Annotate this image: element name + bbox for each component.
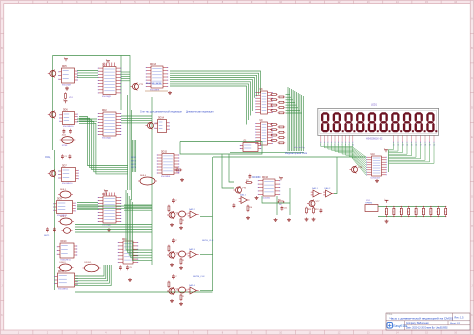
resistor R4v <box>247 205 253 213</box>
IC DD1 top pins <box>104 63 114 67</box>
wire bus <box>131 199 152 258</box>
svg-text:C: C <box>1 77 3 80</box>
wire <box>77 74 98 76</box>
ground G5 <box>180 178 184 182</box>
svg-text:H: H <box>1 225 3 228</box>
wire display digit <box>389 143 430 162</box>
wire <box>77 205 152 207</box>
wire <box>200 216 213 218</box>
capacitor C5 <box>119 265 122 270</box>
svg-text:К561ИЕ11: К561ИЕ11 <box>58 289 69 291</box>
svg-text:DA1.1: DA1.1 <box>312 187 319 190</box>
wire bus <box>128 193 152 253</box>
wire <box>121 117 152 119</box>
wire <box>289 188 291 215</box>
wire <box>121 73 130 75</box>
wire <box>121 115 152 117</box>
capacitor C2 <box>69 154 72 159</box>
resistor RL5 <box>415 206 418 217</box>
transistor Q1 <box>48 70 56 78</box>
IC U12 CD4060 <box>258 177 280 199</box>
net pins U11 <box>131 157 136 169</box>
IC DD4 <box>118 239 139 264</box>
ground G7 <box>274 218 278 222</box>
wire set bus <box>75 229 152 231</box>
wire hours bus <box>170 82 251 116</box>
wire bus <box>75 265 106 278</box>
wire <box>124 204 152 206</box>
svg-text:К561ИД1: К561ИД1 <box>102 225 112 227</box>
wire <box>286 94 290 96</box>
resistor RL7 <box>429 206 432 217</box>
resistor network R20-R35 <box>255 89 285 145</box>
wire display segment <box>342 143 366 170</box>
vcc V2 <box>63 99 67 103</box>
capacitor C6 <box>126 265 133 270</box>
svg-text:Индикаторный блок: Индикаторный блок <box>285 152 308 155</box>
svg-text:К561ИЕ10: К561ИЕ10 <box>62 183 73 185</box>
wire display digit <box>389 143 421 159</box>
resistor RL9 <box>444 206 447 217</box>
wire display digit <box>389 143 403 153</box>
wire display digit <box>389 143 408 155</box>
wire long vertical <box>151 97 153 265</box>
comparator cluster B <box>167 238 199 269</box>
wire segment bus <box>294 91 296 151</box>
display DS1 HS420561K-32 <box>318 104 439 141</box>
wire long bottom <box>75 291 213 293</box>
svg-text:К561ИЕ8: К561ИЕ8 <box>150 90 160 92</box>
wire bus <box>77 120 97 122</box>
wire hours bus <box>170 73 259 94</box>
wire bus U2-U3 <box>79 122 128 172</box>
net label B <box>202 240 214 242</box>
gate D7 <box>138 175 157 185</box>
capacitor C7 <box>249 174 252 179</box>
gate D5 <box>83 262 101 272</box>
ground G3 <box>107 228 111 232</box>
transistor Q3 <box>131 83 144 91</box>
IC U11 decoder <box>157 152 180 178</box>
svg-text:DD12: DD12 <box>58 271 65 273</box>
resistor RL2 <box>392 206 395 217</box>
svg-text:HS420561K-32: HS420561K-32 <box>366 138 383 141</box>
resistor RL6 <box>422 206 425 217</box>
wire display segment <box>346 143 367 172</box>
svg-text:КРЕН5: КРЕН5 <box>366 203 373 205</box>
wire <box>77 77 98 79</box>
IC U6 <box>54 271 78 290</box>
IC U5 <box>57 241 78 261</box>
resistor R1 <box>175 167 183 174</box>
svg-text:ОСЦ: ОСЦ <box>45 157 50 159</box>
svg-text:a b c d e f g: a b c d e f g <box>294 147 304 149</box>
capacitor C8 <box>281 206 289 211</box>
wire <box>230 152 304 154</box>
capacitor C0a <box>63 129 66 134</box>
wire <box>286 109 301 111</box>
wire minutes bus <box>77 202 98 204</box>
wire <box>127 95 129 190</box>
vcc V5 <box>279 176 283 180</box>
wire <box>286 99 294 101</box>
wire bus <box>126 190 152 250</box>
svg-text:SETM_CLK: SETM_CLK <box>193 276 205 278</box>
svg-text:G: G <box>471 196 473 199</box>
wire <box>77 207 152 209</box>
vcc U10 <box>384 148 388 152</box>
svg-text:Rev: 1.5: Rev: 1.5 <box>455 317 465 320</box>
net label top <box>140 111 183 114</box>
wire section left <box>52 56 54 151</box>
wire set bus <box>75 224 152 226</box>
wire bus <box>77 118 97 120</box>
svg-text:DA2.2: DA2.2 <box>189 208 196 211</box>
wire minutes bus <box>77 204 98 206</box>
wire ladder bottom <box>378 216 446 218</box>
wire set bus <box>75 226 152 228</box>
svg-text:Счет час для динамической инди: Счет час для динамической индикации <box>140 111 183 114</box>
gate D3 <box>62 228 73 234</box>
wire segment bus <box>301 95 303 151</box>
wire display digit <box>389 143 435 164</box>
wire display segment <box>349 143 366 174</box>
wire display digit <box>389 143 417 158</box>
svg-text:DD11.1: DD11.1 <box>85 262 93 264</box>
svg-text:DD8.3: DD8.3 <box>60 262 67 264</box>
capacitor C1 <box>61 154 68 159</box>
wire segment bus <box>290 89 292 151</box>
title block <box>386 313 470 330</box>
wire bus <box>132 202 152 260</box>
wire <box>121 80 130 82</box>
svg-text:10k: 10k <box>176 172 179 174</box>
IC U10 driver <box>366 154 386 179</box>
svg-text:DD9: DD9 <box>57 199 62 201</box>
svg-text:DD14: DD14 <box>158 118 165 120</box>
wire bus <box>75 265 109 283</box>
svg-text:DD7: DD7 <box>62 166 67 168</box>
net label D <box>252 177 261 179</box>
wire <box>262 196 290 203</box>
wire hours bus <box>170 80 253 111</box>
ground G8 <box>287 218 291 222</box>
wire display digit <box>389 143 426 161</box>
diode VD1 <box>65 92 74 100</box>
svg-text:U10: U10 <box>371 154 376 156</box>
net label hours <box>146 83 162 85</box>
net label A <box>186 112 214 114</box>
svg-text:К561ИД1: К561ИД1 <box>102 96 112 98</box>
wire to osc2 <box>229 154 234 182</box>
svg-text:C: C <box>471 77 473 80</box>
ground G6 <box>255 196 259 200</box>
gate D2 <box>58 216 74 225</box>
transistor Q2 <box>48 111 56 119</box>
IC NE555 <box>240 141 261 152</box>
svg-text:DD6: DD6 <box>63 110 68 112</box>
capacitor C3 <box>46 227 49 232</box>
wire ladder top <box>378 206 446 208</box>
display pins <box>320 136 435 147</box>
wire net <box>135 140 137 172</box>
svg-text:DA2.3: DA2.3 <box>189 248 196 251</box>
net label indicator <box>285 152 308 155</box>
transistor Q6 <box>48 170 56 178</box>
svg-text:DD8.2: DD8.2 <box>60 216 67 218</box>
wire <box>121 75 130 77</box>
wire net <box>133 140 135 172</box>
wire display segment <box>321 143 367 158</box>
wire segment bus <box>299 94 301 151</box>
svg-text:DA1.2: DA1.2 <box>325 187 332 190</box>
resistor RL1 <box>385 206 388 217</box>
wire to osc <box>222 154 234 188</box>
wire display segment <box>352 143 367 176</box>
svg-text:DD2: DD2 <box>102 110 107 112</box>
wire bus <box>75 265 108 281</box>
wire <box>334 157 337 194</box>
ground G1 <box>65 87 69 91</box>
vcc V4 <box>104 189 108 193</box>
wire <box>77 72 98 74</box>
vcc V1 <box>64 57 68 61</box>
IC U7 <box>154 118 170 133</box>
resistor R3 <box>277 199 285 206</box>
ground G4 <box>168 91 172 95</box>
wire bus U2-U3 <box>79 117 128 166</box>
wire net <box>132 140 134 172</box>
IC U4 <box>53 199 76 217</box>
wire <box>286 112 302 114</box>
resistor RL8 <box>437 206 440 217</box>
svg-text:DD10: DD10 <box>61 241 68 243</box>
wire segment bus <box>302 96 304 151</box>
comparator cluster D <box>167 274 199 305</box>
svg-text:Date: 2020-12-20 Drawn By:: Date: 2020-12-20 Drawn By: Uay010992 <box>406 326 448 329</box>
wire <box>276 196 278 215</box>
resistor RL4 <box>407 206 410 217</box>
svg-text:DD8.1: DD8.1 <box>60 189 67 191</box>
wire <box>200 290 213 292</box>
wire bus U2-U3 <box>79 123 128 174</box>
svg-text:К561ИД1: К561ИД1 <box>102 138 112 140</box>
svg-text:1M: 1M <box>279 204 282 206</box>
net label E <box>294 147 304 149</box>
wire display segment <box>328 143 367 162</box>
svg-text:DA2.1: DA2.1 <box>240 194 247 197</box>
svg-text:EasyEDA: EasyEDA <box>393 324 408 328</box>
svg-text:К561ИЕ8: К561ИЕ8 <box>161 176 171 178</box>
IC U2 counter <box>59 110 78 128</box>
svg-text:К561ИЕ10: К561ИЕ10 <box>63 126 74 128</box>
op-amp cluster DA1 <box>305 187 335 221</box>
svg-text:DD5: DD5 <box>62 66 67 68</box>
net label C <box>193 276 205 278</box>
wire <box>121 71 130 73</box>
wire minutes bus <box>77 208 98 210</box>
capacitor C0b <box>69 129 72 134</box>
svg-text:DA2.4: DA2.4 <box>189 284 196 287</box>
svg-text:SET1: SET1 <box>44 235 50 237</box>
IC T1 hours counter <box>146 64 169 91</box>
wire <box>77 70 98 72</box>
svg-text:DD8.4: DD8.4 <box>140 175 147 177</box>
wire bus <box>129 196 152 255</box>
wire <box>200 254 213 256</box>
wire <box>120 56 122 111</box>
wire section box <box>53 56 131 191</box>
net label osc <box>45 157 50 159</box>
IC DD2 <box>98 110 122 139</box>
wire hours bus <box>170 71 261 93</box>
transistor Q4 <box>146 122 159 130</box>
wire <box>121 122 152 124</box>
svg-text:D: D <box>1 107 3 110</box>
wire hours bus <box>170 75 257 96</box>
wire bus U2-U3 <box>79 118 128 167</box>
svg-text:D: D <box>471 107 473 110</box>
svg-text:SET3: SET3 <box>131 167 136 169</box>
svg-text:CD4060: CD4060 <box>252 177 261 179</box>
svg-text:К561ЛА7: К561ЛА7 <box>62 84 72 87</box>
wire display segment <box>339 143 367 168</box>
svg-text:DD15: DD15 <box>161 152 168 154</box>
svg-text:DD13: DD13 <box>150 64 157 66</box>
wire display segment <box>324 143 366 160</box>
wire <box>124 209 152 211</box>
op-amp DA3 <box>239 194 250 204</box>
wire segment bus <box>292 90 294 151</box>
crystal ZQ1 <box>60 135 76 147</box>
svg-text:Company: Ваболенко: Company: Ваболенко <box>406 323 429 325</box>
wire <box>388 150 390 173</box>
IC U3 <box>58 166 79 185</box>
transistor Q20 <box>350 166 363 174</box>
transistor Q5 <box>234 186 247 194</box>
IC U1 counter <box>58 66 78 86</box>
vcc V3 <box>106 59 110 63</box>
wire set bus <box>75 231 152 233</box>
wire bus <box>75 265 111 286</box>
wire <box>286 96 292 98</box>
ground G2 <box>128 278 132 282</box>
svg-text:DD4: DD4 <box>122 239 127 241</box>
wire display segment <box>335 143 367 166</box>
wire <box>121 78 130 80</box>
wire segment bus <box>296 92 298 151</box>
capacitor C4 <box>53 227 56 232</box>
gate D1 <box>58 189 73 198</box>
wire segment bus <box>297 93 299 151</box>
wire segment bus <box>289 88 291 151</box>
capacitor C9c <box>233 203 236 208</box>
wire bus <box>75 265 104 276</box>
wire hours bus <box>170 86 247 125</box>
ground G9 <box>246 216 250 220</box>
svg-text:G: G <box>1 196 3 199</box>
net label set <box>44 235 50 237</box>
wire display segment <box>331 143 366 164</box>
wire <box>124 207 152 209</box>
svg-text:CD4060: CD4060 <box>262 198 271 200</box>
regulator XS1 <box>365 198 389 223</box>
comparator cluster A <box>167 198 199 229</box>
wire box <box>180 142 262 155</box>
wire <box>286 102 295 104</box>
wire section left low <box>54 150 56 290</box>
svg-text:ULN2003: ULN2003 <box>371 178 381 180</box>
resistor RL3 <box>400 206 403 217</box>
wire <box>121 120 152 122</box>
IC DD3 top pins <box>104 193 114 197</box>
wire vertical to comparators <box>212 157 214 291</box>
wire red net <box>145 90 168 92</box>
wire segment bus <box>287 87 289 151</box>
svg-text:Счетчик часов: Счетчик часов <box>146 83 162 85</box>
wire minutes bus <box>77 206 98 208</box>
gate D4 <box>58 262 74 271</box>
wire <box>286 104 297 106</box>
wire display digit <box>389 143 412 156</box>
svg-text:Часы с динамической индикацией: Часы с динамической индикацией на CMOS <box>390 317 454 321</box>
svg-text:DD16: DD16 <box>262 177 269 179</box>
svg-text:Sheet: 1/2: Sheet: 1/2 <box>450 322 461 325</box>
svg-text:H: H <box>471 225 473 228</box>
svg-text:SET0: SET0 <box>131 157 136 159</box>
svg-text:SET2: SET2 <box>131 164 136 166</box>
svg-text:LED1: LED1 <box>371 104 378 107</box>
wire display digit <box>389 143 399 152</box>
svg-text:Динамическая индикация: Динамическая индикация <box>186 112 214 114</box>
wire <box>131 110 133 200</box>
IC DD1 <box>98 65 122 98</box>
svg-text:SETH_CLK: SETH_CLK <box>202 240 214 242</box>
wire <box>286 107 299 109</box>
svg-text:32768: 32768 <box>62 145 68 147</box>
ground U10 <box>375 179 379 183</box>
svg-text:SET1: SET1 <box>131 160 136 162</box>
wire bus U2-U3 <box>79 120 128 170</box>
wire hours bus <box>170 84 249 120</box>
IC DD3 <box>98 194 122 226</box>
resistor R2 <box>245 180 253 184</box>
wire common <box>213 156 366 158</box>
wire hours bus <box>170 78 255 98</box>
wire display digit <box>389 143 394 150</box>
